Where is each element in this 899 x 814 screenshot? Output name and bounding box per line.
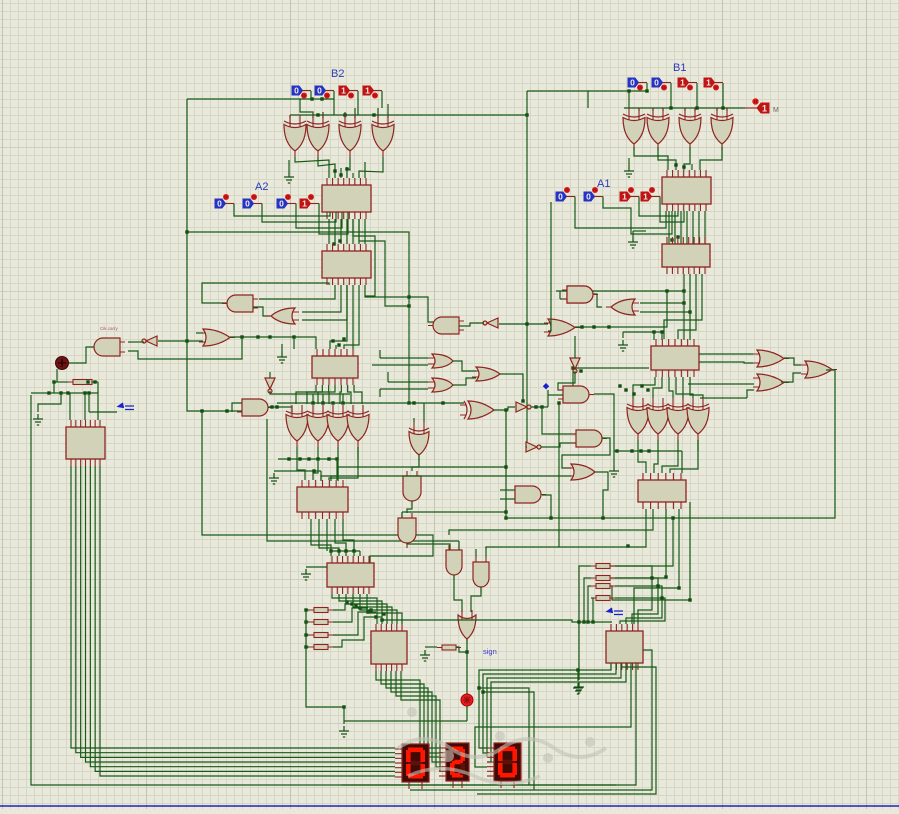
wire long mid vertical: [187, 232, 409, 403]
wire: [56, 369, 58, 382]
or gate sign: [458, 610, 476, 644]
svg-text:1: 1: [302, 199, 307, 209]
wire: [609, 291, 667, 327]
xor gate U3:B1: [679, 108, 701, 150]
wire: [594, 394, 614, 451]
wire bundle: [686, 211, 688, 244]
wire: [611, 502, 690, 600]
wire long: [230, 337, 316, 349]
wire: [722, 83, 724, 108]
wire: [379, 350, 381, 358]
wire: [640, 311, 690, 313]
and gate right mid: [558, 386, 594, 403]
junction: [331, 339, 334, 342]
wire: [313, 459, 318, 480]
sheet border: [0, 805, 899, 807]
junction: [93, 380, 96, 383]
watermark: [398, 707, 606, 784]
wire: [579, 566, 591, 680]
wire: [499, 323, 548, 325]
wire: [372, 364, 428, 366]
xor gate U1:B2: [284, 115, 306, 157]
wire: [697, 440, 699, 451]
svg-text:1: 1: [643, 192, 648, 202]
junction: [52, 380, 55, 383]
svg-text:B1: B1: [673, 62, 686, 74]
wire: [354, 385, 362, 404]
wire display2 feed: [391, 671, 439, 762]
wire: [38, 393, 61, 412]
junction: [342, 705, 345, 708]
xor gate row3 c: [667, 398, 689, 440]
wire: [688, 383, 754, 385]
logicstate B1.3: [628, 78, 647, 91]
junction: [626, 544, 629, 547]
junction: [601, 516, 604, 519]
wire: [319, 519, 339, 551]
wire: [317, 447, 319, 459]
junction: [304, 608, 307, 611]
wire: [634, 509, 679, 624]
svg-text:1: 1: [680, 78, 685, 88]
wire: [322, 394, 324, 404]
wire: [453, 378, 476, 385]
wire: [352, 173, 354, 178]
svg-text:0: 0: [279, 199, 284, 209]
wire: [295, 157, 329, 178]
wire: [31, 392, 98, 394]
or gate pair out: [472, 367, 505, 381]
wire: [336, 459, 338, 480]
svg-text:A1: A1: [597, 178, 610, 190]
logicstate A1.2: [584, 187, 603, 202]
or gate right 1: [753, 350, 789, 367]
wire: [638, 451, 646, 473]
and gate right 2: [571, 430, 607, 447]
junction: [504, 408, 507, 411]
wire: [333, 91, 335, 115]
logicstate A2.2: [243, 194, 262, 209]
wire: [593, 294, 602, 307]
ic 74xx adder B (left lower): [322, 244, 371, 285]
junction: [59, 391, 62, 394]
wire: [623, 331, 662, 333]
logicstate B2.1: [339, 86, 358, 99]
wire: [357, 91, 359, 115]
wire big loop: [506, 370, 835, 518]
junction: [287, 457, 290, 460]
or gate carry1: [266, 308, 299, 324]
inverter cik: [142, 336, 157, 346]
junction: [577, 620, 580, 623]
junction: [407, 295, 410, 298]
wire: [681, 451, 683, 473]
wire: [359, 551, 361, 556]
ground: [301, 569, 311, 580]
wire: [306, 566, 327, 568]
svg-text:A2: A2: [255, 181, 268, 193]
resistor bank right 3: [591, 584, 615, 589]
resistor bank left 4: [309, 645, 333, 650]
wire: [53, 382, 55, 393]
junction: [639, 449, 642, 452]
wire: [306, 634, 309, 636]
wire: [479, 688, 529, 785]
and gate carry1: [222, 295, 258, 312]
wire: [330, 551, 332, 556]
and gate sign 1: [446, 545, 462, 580]
wire: [297, 459, 305, 480]
wire: [661, 332, 663, 340]
wire: [388, 381, 428, 383]
wire display2 feed: [381, 671, 439, 753]
junction: [372, 113, 375, 116]
wire: [365, 285, 409, 297]
ic mux mid-left: [312, 349, 358, 385]
wire: [591, 598, 593, 622]
wire: [527, 91, 588, 108]
wire long y541: [267, 419, 459, 541]
wire: [454, 575, 462, 612]
wire: [54, 381, 68, 383]
junction: [185, 339, 188, 342]
wire bundle: [358, 219, 360, 244]
junction: [382, 612, 385, 615]
wire: [700, 397, 747, 399]
wire: [664, 274, 702, 339]
wire: [494, 407, 515, 410]
and gate right carry: [562, 286, 598, 303]
junction: [342, 337, 345, 340]
svg-text:1: 1: [622, 192, 627, 202]
wire bottom rail 3: [477, 667, 656, 794]
xor gate row3 d: [687, 398, 709, 440]
wire: [453, 361, 476, 371]
logicprobe blue 2: [607, 608, 623, 615]
wire bundle: [364, 219, 366, 244]
junction: [525, 113, 528, 116]
logicstate B1.0: [704, 78, 723, 91]
logicstate A1.3: [556, 187, 575, 202]
wire: [335, 519, 346, 551]
wire: [696, 83, 698, 108]
wire: [320, 471, 322, 481]
inverter down right: [570, 358, 580, 373]
wire: [307, 385, 322, 404]
ic bcd center: [371, 624, 407, 671]
and gate right 3: [510, 486, 546, 503]
xor gate U1:B1: [623, 108, 645, 150]
xor gate row2 d: [347, 405, 369, 447]
ground: [573, 683, 583, 694]
wire: [633, 377, 655, 398]
junction: [650, 576, 653, 579]
junction: [618, 384, 621, 387]
junction: [87, 391, 90, 394]
ic 74xx adder A (left upper): [322, 178, 371, 219]
junction: [332, 242, 335, 245]
wire: [360, 594, 397, 624]
wire: [526, 446, 527, 448]
wire: [670, 440, 698, 473]
wire bottom rail: [341, 663, 636, 785]
wire: [97, 382, 99, 420]
wire display bus: [90, 466, 395, 767]
wire: [359, 157, 383, 178]
junction: [627, 89, 630, 92]
wire bundle: [674, 211, 676, 244]
junction: [304, 645, 307, 648]
wire: [615, 566, 652, 624]
junction: [695, 106, 698, 109]
junction: [316, 113, 319, 116]
wire: [654, 451, 658, 473]
junction: [504, 510, 507, 513]
and gate center 1: [403, 471, 421, 506]
junction: [298, 457, 301, 460]
wire: [563, 368, 573, 390]
wire: [300, 99, 313, 118]
wire: [694, 108, 696, 111]
wire: [343, 519, 354, 551]
wire: [288, 160, 290, 172]
junction: [316, 457, 319, 460]
wire to and gate: [202, 283, 329, 303]
wire: [662, 451, 678, 473]
wire: [348, 385, 351, 404]
wire: [269, 372, 271, 378]
logicstate B1.2: [652, 78, 671, 91]
wire: [662, 108, 664, 111]
wire: [559, 509, 646, 547]
junction: [656, 584, 659, 587]
wire: [329, 447, 358, 480]
wire display bus: [76, 466, 395, 753]
junction: [477, 686, 480, 689]
junction: [586, 620, 589, 623]
wire: [658, 147, 676, 170]
wire display3 feed: [487, 663, 621, 757]
or gate pair bottom: [428, 378, 458, 392]
svg-text:1: 1: [762, 104, 767, 114]
wire: [485, 547, 487, 557]
wire: [332, 594, 377, 624]
junction: [366, 610, 369, 613]
and gate mid: [237, 399, 273, 416]
junction: [647, 449, 650, 452]
svg-text:0: 0: [217, 199, 222, 209]
wire: [678, 274, 696, 339]
wire: [657, 440, 659, 451]
junction: [312, 469, 315, 472]
junction: [185, 230, 188, 233]
wire: [652, 108, 654, 111]
logicstate B2.3: [292, 86, 311, 99]
junction: [624, 388, 627, 391]
junction: [83, 391, 86, 394]
wire display bus: [71, 466, 395, 748]
junction: [632, 392, 635, 395]
svg-text:1: 1: [706, 78, 711, 88]
junction: [47, 391, 50, 394]
wire: [338, 551, 340, 556]
wire: [684, 108, 686, 111]
wire: [128, 341, 144, 343]
junction: [646, 388, 649, 391]
wire: [556, 290, 684, 292]
wire: [340, 385, 341, 404]
wire: [500, 489, 515, 491]
wire: [458, 541, 460, 550]
ic bcd left: [66, 420, 105, 466]
wire: [548, 202, 551, 331]
junction: [341, 401, 344, 404]
wire: [343, 707, 345, 724]
wire: [682, 377, 684, 398]
logicstate M: [745, 98, 779, 114]
wire: [306, 609, 309, 611]
or gate mid: [544, 319, 580, 336]
wire A1.3: [575, 197, 666, 229]
wire: [306, 621, 309, 623]
wire ic bundle: [683, 274, 685, 340]
resistor bank left 1: [309, 608, 333, 613]
wire loop to resistor: [611, 518, 673, 566]
junction: [86, 380, 89, 383]
wire: [92, 381, 98, 383]
wire: [560, 298, 567, 300]
junction: [337, 343, 340, 346]
wire long right vertical: [526, 91, 528, 447]
wire: [584, 578, 591, 622]
ic 74xx adder B (right lower): [662, 237, 710, 274]
wire: [333, 608, 368, 622]
wire: [353, 551, 355, 556]
resistor bank right 2: [591, 576, 615, 581]
svg-text:B2: B2: [331, 68, 344, 80]
wire: [335, 345, 337, 349]
wire A2.1: [296, 204, 342, 229]
junction: [407, 304, 410, 307]
wire bundle: [328, 219, 330, 244]
wire: [475, 549, 477, 557]
wire display3 feed: [475, 663, 631, 767]
wire: [364, 162, 366, 178]
wire: [380, 388, 428, 390]
junction: [660, 330, 663, 333]
svg-text:0: 0: [586, 192, 591, 202]
junction: [682, 289, 685, 292]
junction: [504, 516, 507, 519]
wire: [615, 598, 665, 624]
wire ic4 to node: [338, 467, 506, 481]
junction: [540, 405, 543, 408]
wire bundle: [352, 219, 354, 244]
wire: [634, 147, 668, 170]
junction: [557, 401, 560, 404]
and gate cik: [89, 338, 125, 356]
wire: [456, 647, 467, 652]
inverter down: [265, 378, 275, 393]
wire: [312, 394, 314, 404]
wire A2.3: [234, 204, 330, 217]
junction: [310, 97, 313, 100]
wire: [575, 326, 609, 328]
junction: [525, 322, 528, 325]
wire: [541, 443, 576, 447]
logicstate A2.0: [300, 194, 319, 209]
inverter h 2: [526, 442, 541, 452]
7seg display 3: [487, 743, 521, 788]
wire: [387, 104, 389, 118]
wire: [691, 164, 693, 170]
junction: [579, 369, 582, 372]
xor gate row3 b: [647, 398, 669, 440]
junction: [549, 516, 552, 519]
svg-text:sign: sign: [483, 647, 497, 656]
wire: [379, 389, 381, 397]
svg-text:M: M: [773, 107, 779, 114]
wire: [559, 291, 561, 299]
logicstate A1.1: [620, 187, 639, 202]
logicstate B1.1: [678, 78, 697, 91]
junction: [645, 89, 648, 92]
junction: [670, 238, 673, 241]
wire long y535 to ic8: [202, 412, 433, 563]
wire: [588, 90, 648, 92]
wire: [407, 543, 450, 550]
ground: [574, 682, 584, 693]
wire: [347, 157, 350, 178]
wire: [670, 83, 672, 108]
wire long x559: [486, 403, 559, 549]
wire: [483, 692, 534, 790]
junction: [677, 586, 680, 589]
wire: [588, 586, 591, 622]
wire A1.1: [639, 197, 678, 217]
wire: [628, 158, 630, 166]
wire: [632, 231, 634, 237]
wire: [380, 357, 428, 359]
ground: [420, 650, 430, 661]
wire: [781, 373, 801, 382]
ground: [618, 340, 628, 351]
xor gate row3 a: [627, 398, 649, 440]
ground: [624, 166, 634, 177]
wire: [367, 594, 402, 624]
wire: [595, 472, 608, 518]
wire: [281, 344, 283, 352]
resistor bank left 2: [309, 620, 333, 625]
junction: [665, 289, 668, 292]
junction: [331, 401, 334, 404]
wire: [401, 512, 403, 518]
wire and out to led: [69, 347, 94, 363]
logicstate B2.0: [363, 86, 382, 99]
wire: [425, 646, 437, 648]
wire display bus: [95, 466, 395, 771]
wire: [296, 447, 298, 459]
wire: [784, 358, 801, 365]
wire: [413, 418, 415, 422]
junction: [674, 163, 677, 166]
and gate dup: [562, 286, 598, 303]
wire: [423, 403, 425, 422]
wire: [637, 440, 639, 451]
resistor R-carry: [68, 380, 97, 385]
junction: [268, 335, 271, 338]
wire bundle: [340, 219, 342, 244]
